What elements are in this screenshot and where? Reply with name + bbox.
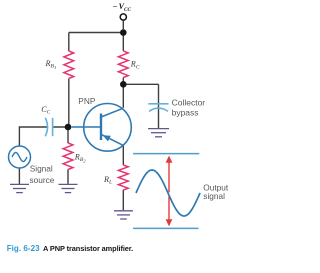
svg-text:PNP: PNP (78, 96, 96, 106)
svg-text:bypass: bypass (172, 107, 199, 117)
svg-text:Collector: Collector (172, 98, 206, 108)
svg-text:Fig. 6-23: Fig. 6-23 (7, 244, 40, 253)
svg-text:Signal: Signal (30, 164, 53, 174)
svg-text:A PNP transistor amplifier.: A PNP transistor amplifier. (43, 244, 133, 253)
svg-text:source: source (30, 175, 55, 185)
svg-text:signal: signal (203, 191, 225, 201)
